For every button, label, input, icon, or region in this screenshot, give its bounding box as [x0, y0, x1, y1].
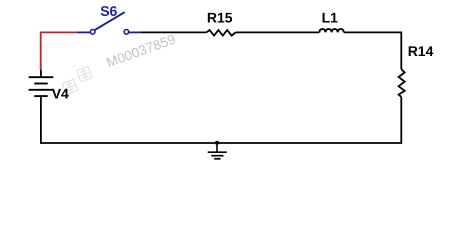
wire R14 to bottom-right corner — [217, 97, 402, 143]
svg-text:S6: S6 — [100, 3, 117, 19]
ground — [208, 141, 227, 159]
resistor R14 — [399, 69, 405, 97]
wire to R15 — [141, 31, 206, 33]
svg-text:V4: V4 — [52, 86, 69, 102]
resistor R15 — [206, 30, 235, 35]
wire (red) from battery top up-left corner to switch — [41, 32, 78, 70]
wire L1 to top-right corner, down to R14 — [344, 32, 402, 69]
inductor L1 — [319, 29, 343, 33]
svg-text:R14: R14 — [408, 43, 434, 59]
svg-text:R15: R15 — [207, 10, 233, 26]
wire bottom-left to battery — [41, 96, 217, 143]
switch S6 — [90, 12, 128, 34]
wire R15 to L1 — [236, 31, 320, 33]
svg-text:L1: L1 — [322, 10, 339, 26]
wire (blue) from switch right terminal — [129, 31, 142, 33]
wire (blue) into switch left terminal — [78, 31, 91, 33]
watermark — [60, 31, 178, 94]
battery V4 — [29, 70, 54, 96]
